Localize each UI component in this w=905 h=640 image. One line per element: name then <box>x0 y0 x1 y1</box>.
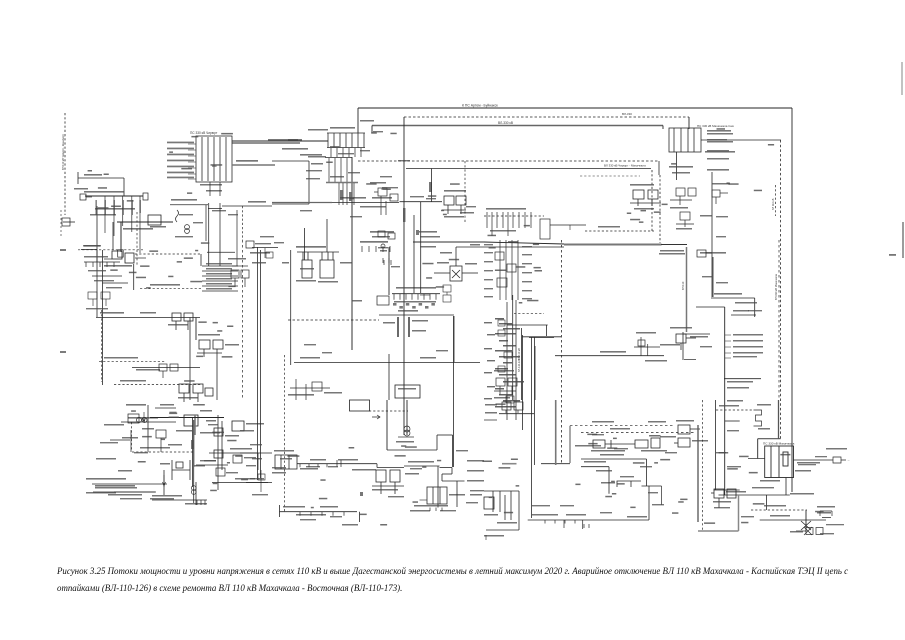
labels y508 b <box>320 506 338 508</box>
row <box>733 340 763 342</box>
bracket cluster x167-200 y457-482 <box>172 460 190 480</box>
tick col label <box>393 303 397 306</box>
wire dashed vertical x652 <box>651 170 653 232</box>
row text <box>206 288 232 290</box>
bc label c <box>328 466 338 467</box>
wire drop <box>662 126 664 130</box>
c label x436 y350 <box>436 350 448 351</box>
u label g <box>398 160 410 161</box>
row text <box>206 283 232 285</box>
wire x121 down <box>120 222 122 252</box>
substation cluster x484-520 y485-532 <box>484 491 519 530</box>
label SV Sulak b <box>412 330 426 332</box>
net label y314b <box>140 312 156 314</box>
labels cluster A <box>104 265 132 267</box>
wire x389 lower <box>388 354 390 400</box>
wire dashed y384 <box>114 384 202 386</box>
u label d <box>350 216 362 217</box>
grid drop 2 <box>219 182 221 196</box>
wire y315 long <box>379 314 454 316</box>
wire dashed x131 <box>131 422 133 450</box>
rows x707 <box>707 158 729 160</box>
wire x304 join <box>304 228 306 260</box>
labels below cluster2 <box>714 507 730 508</box>
grid drop 1 <box>209 182 211 196</box>
value <box>84 245 100 247</box>
lead <box>188 178 196 180</box>
r lead y358 <box>725 357 731 359</box>
bus y196 drops <box>105 196 140 253</box>
wire dashed y410 <box>716 409 754 411</box>
box big top <box>272 160 309 162</box>
wire y467 r <box>440 467 453 469</box>
labels right <box>660 344 680 346</box>
label K PS <box>308 156 326 158</box>
k440 b <box>614 448 628 449</box>
row of boxes y440 <box>593 438 660 448</box>
ladder small boxes <box>498 320 514 403</box>
small cluster x375-400 y185-215 <box>374 188 398 215</box>
wire x646 down <box>646 459 648 486</box>
labels y214 <box>90 214 116 216</box>
labels y494 <box>108 494 142 496</box>
label mid right <box>575 445 601 447</box>
li arrow <box>143 412 146 422</box>
wire dashed y176 segment <box>580 175 640 177</box>
labels y231 <box>370 231 394 233</box>
label <box>690 336 708 338</box>
rotated label x405 <box>403 208 406 222</box>
lc ticks y262 <box>86 262 114 267</box>
labels right y480 <box>467 480 484 482</box>
lead <box>420 499 428 501</box>
col text <box>484 288 493 289</box>
tick x359 <box>359 512 361 522</box>
wire into hub <box>232 142 300 144</box>
wire y463 main <box>297 463 377 465</box>
ticks y511 <box>300 512 344 516</box>
wire y208 segment <box>208 208 222 210</box>
bc label g <box>440 510 456 511</box>
bc label i <box>470 490 484 491</box>
cluster x711-726 y189-199 <box>712 190 728 204</box>
wire chiryurt to hub <box>232 140 328 142</box>
tick col label <box>399 306 403 309</box>
labels y418 <box>128 417 158 419</box>
labels cluster bottom <box>444 216 464 218</box>
wire dashed y320 long <box>288 319 379 321</box>
wire y466 <box>581 466 609 468</box>
lb labels y498 <box>120 498 142 499</box>
net label y288 <box>150 284 180 286</box>
lead <box>104 258 112 260</box>
r label x748 y310 <box>748 310 762 311</box>
wire vertical x531 long <box>531 337 533 518</box>
labels y515 a <box>532 514 558 516</box>
net label y228 <box>598 226 620 228</box>
value <box>84 174 102 176</box>
wire right border vertical <box>791 108 793 492</box>
col text <box>484 270 493 271</box>
net label y199b <box>372 197 392 199</box>
wire y337 <box>529 337 554 339</box>
li label e <box>168 444 182 446</box>
left of hub <box>311 163 323 165</box>
bc label l <box>330 516 342 517</box>
left margin dash 2 <box>60 351 66 353</box>
box big right <box>308 161 310 204</box>
cluster x228-250 y262-290 <box>231 240 249 287</box>
label y422 b <box>648 421 666 423</box>
vl row 2 <box>306 178 320 179</box>
label nc4 <box>193 222 203 223</box>
row text <box>206 263 232 265</box>
labels below grid b <box>206 190 222 192</box>
substation PS-330 Chiryurt box grid <box>196 136 232 182</box>
wire vertical x431 <box>431 169 433 203</box>
bc label k <box>300 519 316 520</box>
li drop x258 <box>257 453 259 470</box>
wire dashed x137 <box>136 212 138 265</box>
wire drop to hub 2 <box>371 126 373 134</box>
wire to right <box>456 246 564 248</box>
labels below y450 b <box>641 450 667 452</box>
label below box <box>760 480 780 482</box>
label nc2 <box>179 214 193 215</box>
label above right <box>826 448 847 450</box>
box big bottom <box>272 203 309 205</box>
wire gray stub <box>232 164 275 166</box>
labels y478 <box>86 478 126 480</box>
scattered value annotations <box>88 128 824 525</box>
col text r <box>522 281 532 282</box>
label <box>160 463 170 465</box>
labels below y293 <box>394 301 436 303</box>
wire vertical x507 ladder <box>506 302 508 420</box>
k440 a <box>592 434 604 435</box>
ticks y293 <box>394 294 436 300</box>
li label j <box>240 430 254 432</box>
ticks on x389 <box>383 258 389 263</box>
label x272 y467 <box>272 467 286 468</box>
ladder left labels <box>484 322 495 399</box>
value row chiryurt <box>167 154 194 156</box>
labels above <box>370 182 386 184</box>
net label y355 <box>600 351 626 353</box>
net label y517 <box>770 515 790 517</box>
wire y422 <box>121 421 176 423</box>
ladder rungs x495-520 <box>495 318 524 408</box>
ticks y500 <box>197 500 205 505</box>
bc label j <box>466 502 478 503</box>
wire dashed x284 <box>284 355 286 512</box>
k label b <box>560 505 574 506</box>
cluster PS rows mid-left <box>202 266 238 291</box>
labels in bus <box>490 230 516 232</box>
wire x715 <box>715 400 717 490</box>
svg-text:ВЛ 330 кВ Махачкала: ВЛ 330 кВ Махачкала <box>774 273 778 300</box>
dense column cluster x500-520 y240-305 <box>495 240 518 300</box>
labels right of y244 <box>700 252 726 254</box>
rotated label x191 <box>191 440 194 449</box>
wire thick gray vertical x352 <box>351 157 353 350</box>
labels below cluster <box>713 501 731 503</box>
wire x570 <box>569 426 571 463</box>
value row chiryurt <box>167 142 194 144</box>
li wire y453 ext <box>240 452 258 454</box>
li extra label <box>100 442 118 443</box>
reactor circles x140 y420 <box>137 418 148 423</box>
vertical x133 <box>133 264 135 290</box>
net label y507 <box>764 505 786 507</box>
li drop <box>160 438 162 452</box>
label reactor b <box>758 428 770 430</box>
text col hub drop2 <box>349 192 352 201</box>
labels below grid <box>414 505 448 507</box>
li label k <box>250 444 262 445</box>
transformer X mark x806 <box>801 521 811 530</box>
rows x707 <box>707 150 729 152</box>
net label y312 <box>398 310 418 312</box>
labels below bus <box>95 208 135 210</box>
li label h <box>208 424 218 425</box>
label <box>176 430 192 432</box>
label left bottom <box>790 531 803 533</box>
wire vertical x414 <box>413 215 415 293</box>
label VL-110-126 <box>815 456 827 457</box>
wire vertical x516 ladder <box>515 300 517 420</box>
wire thick gray x686 <box>686 247 688 332</box>
box PS lower-left <box>184 415 198 426</box>
wire x452 down <box>452 435 454 467</box>
label x228 y214 <box>228 214 238 215</box>
svg-text:ПС 330 кВ Чирюрт: ПС 330 кВ Чирюрт <box>190 131 218 135</box>
li drop2 <box>147 440 149 452</box>
wire y206 right <box>246 205 272 207</box>
wire y201 right <box>400 201 443 203</box>
labels y370 <box>136 369 160 371</box>
wire dashed y250 <box>78 249 143 251</box>
li box x216 y468 <box>216 468 225 476</box>
drop x766 <box>766 495 768 510</box>
wire y463 stub <box>541 463 570 465</box>
wire y225 <box>550 224 586 226</box>
labels below y378 <box>727 381 753 383</box>
cluster 35kV x494-516 y375-400 <box>494 378 517 395</box>
svg-text:К ПС Артем - Буйнакск: К ПС Артем - Буйнакск <box>462 104 498 108</box>
lead <box>188 161 196 163</box>
lc label y287 <box>106 287 122 288</box>
below y463 <box>300 468 318 470</box>
labels above bus <box>84 191 124 193</box>
cluster x286-347 y379-400 <box>290 379 330 400</box>
labels y236 <box>372 236 390 238</box>
cluster x670-696 y185-205 <box>670 188 696 205</box>
li label c <box>142 428 154 430</box>
wire long vertical x260 <box>260 250 262 478</box>
svg-text:ВЛ-110-120: ВЛ-110-120 <box>518 358 521 372</box>
label x440 <box>440 252 452 254</box>
svg-text:ВЛ 110 кВ: ВЛ 110 кВ <box>517 348 521 360</box>
labels below 2 <box>676 228 692 230</box>
box x266 <box>266 252 273 258</box>
label nc3 <box>175 236 193 237</box>
substation Novy Chirkey cluster <box>170 205 208 241</box>
labels y397 <box>178 397 198 399</box>
net label y141 <box>288 139 302 141</box>
wire y484 <box>92 483 167 485</box>
li label b <box>160 404 174 406</box>
drop <box>546 325 548 336</box>
label x300 y268 <box>300 268 314 270</box>
bc label e <box>388 496 404 497</box>
labels below y450 <box>591 450 625 452</box>
jog down <box>451 468 453 475</box>
value row chiryurt <box>167 148 194 150</box>
bus pair x396-411 y317-337 <box>398 317 409 337</box>
c label x322 <box>322 352 332 353</box>
lc bus y262 <box>84 261 120 263</box>
wire y492 ext <box>93 491 156 493</box>
bus lower <box>117 221 173 223</box>
wire dashed y425 <box>570 425 674 427</box>
lead <box>725 346 731 348</box>
below y470 <box>596 470 612 472</box>
lc wire <box>96 250 98 262</box>
wire y492 <box>114 491 155 493</box>
wire dashed x101 <box>101 310 103 382</box>
wire vertical x102 <box>102 250 104 385</box>
hub lower labels2 <box>348 172 360 173</box>
li label m <box>246 465 256 466</box>
li label f <box>96 458 116 460</box>
wire y206 left ext <box>222 205 246 207</box>
col text r <box>522 290 532 291</box>
wire x196 down <box>195 318 197 341</box>
labels y295 <box>714 293 742 295</box>
wire y435 <box>437 434 453 436</box>
lead <box>420 294 430 296</box>
li label x226 <box>226 472 238 473</box>
wire x609 <box>608 467 610 494</box>
lc drop <box>92 299 94 306</box>
labels y508 <box>283 506 305 508</box>
component right end y460 <box>833 457 846 463</box>
box x246 y241 <box>246 241 254 248</box>
label x426 y198 <box>426 198 436 199</box>
net label y462 <box>584 461 606 463</box>
component cluster x639-666 y334-357 <box>634 337 660 356</box>
value row chiryurt <box>167 160 194 162</box>
li box2 <box>156 430 166 438</box>
labels y188 <box>74 188 88 190</box>
lc wire y283 <box>103 282 129 284</box>
chain label r <box>225 435 239 437</box>
lead <box>706 252 712 254</box>
substation PS-330 Makhachkala box <box>765 446 794 478</box>
li extra wire <box>110 439 130 441</box>
labels cluster337 <box>198 334 220 336</box>
li label i <box>118 470 132 472</box>
wire x237 up <box>236 210 238 240</box>
label x352 y300 <box>352 300 362 302</box>
labels y497a <box>152 495 182 497</box>
svg-text:ВЛ 110: ВЛ 110 <box>681 281 685 290</box>
wire x649 up <box>648 486 650 520</box>
wire x208 up ext <box>208 203 210 240</box>
labels right cluster <box>692 440 708 442</box>
wire vertical x712 <box>711 172 713 297</box>
col712 y276 <box>702 276 712 277</box>
labels left y412 <box>485 412 497 414</box>
label x255 y243 <box>255 243 271 244</box>
u label f <box>380 176 392 177</box>
wire dashed x709 <box>702 400 704 532</box>
labels right y470 <box>467 470 484 472</box>
right edge mark <box>902 222 904 258</box>
label below y460 <box>797 462 820 464</box>
bus y196 extension <box>85 195 143 197</box>
lead2 <box>748 458 757 460</box>
drop <box>563 520 565 528</box>
rows x707 <box>707 141 733 143</box>
r label x733 y356 <box>733 356 757 357</box>
wire x327 join <box>326 219 328 252</box>
wire x661 down <box>661 486 663 505</box>
wire below box <box>785 478 787 496</box>
wire y244 ext <box>662 244 688 246</box>
label x244 y457 <box>244 457 256 458</box>
wire y459 <box>581 458 647 460</box>
bus left cluster <box>97 195 140 197</box>
wire x806 down <box>805 510 807 532</box>
box small x377 <box>377 296 389 305</box>
labels cluster <box>636 332 656 334</box>
li label y452b <box>134 452 148 453</box>
bc label b <box>306 466 320 467</box>
labels cluster top <box>444 190 466 192</box>
substation two-box cluster x297-339 <box>291 250 339 365</box>
x389 label <box>391 266 400 267</box>
vl row 1 <box>306 170 322 171</box>
net label y466 Kaspiysk <box>408 461 434 463</box>
wire drop to PS box <box>688 117 690 129</box>
bottom-right box cluster x711-748 <box>711 489 736 508</box>
wire y334 right <box>683 333 710 335</box>
bc vert smudge <box>360 492 363 496</box>
wire vertical x534 long <box>534 337 536 465</box>
col text <box>484 279 493 280</box>
left margin dash 1 <box>60 249 66 251</box>
chain label l2 <box>204 460 216 462</box>
c label x304 y344 <box>304 344 316 345</box>
wire drop to hub <box>357 108 359 133</box>
wire y520 long <box>528 519 649 521</box>
above hub label2 <box>373 131 383 132</box>
wire y367 <box>132 367 200 369</box>
c tick x265 <box>264 248 266 258</box>
tiny label <box>380 250 387 252</box>
substation Miatli cluster <box>630 190 661 206</box>
wire dashed x465 <box>464 161 466 222</box>
text columns under bus y196 <box>96 200 141 215</box>
wire y421 <box>725 420 740 422</box>
stub y420 <box>484 419 497 421</box>
hub mid labels <box>338 153 354 154</box>
wire stub <box>81 249 97 251</box>
lead <box>188 143 196 145</box>
col712 y236 <box>716 236 726 237</box>
